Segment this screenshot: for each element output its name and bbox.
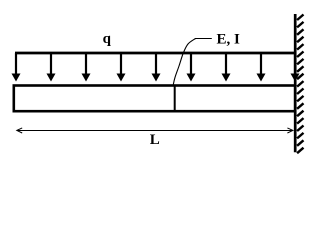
svg-text:E, I: E, I bbox=[217, 31, 241, 47]
svg-text:q: q bbox=[103, 31, 112, 47]
svg-text:L: L bbox=[150, 132, 160, 148]
